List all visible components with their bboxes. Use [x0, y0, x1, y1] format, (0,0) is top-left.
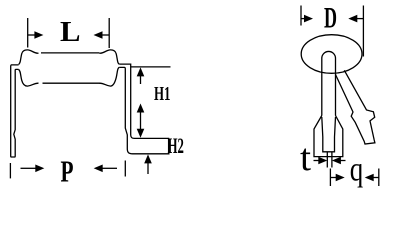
main lead (straight, crimped tip) [322, 51, 336, 115]
H1 lower double-headed arrow [137, 104, 145, 138]
main lead inner crimp [322, 117, 336, 152]
left lead (bent down, with crimp kink, widened crimped tip) [11, 65, 19, 157]
svg-text:L: L [60, 16, 81, 48]
dimension t tick right [331, 153, 333, 168]
H1 upper arrow (pointing up at ref line) [137, 67, 145, 84]
dimension L extension line right [108, 18, 110, 48]
dimension q tick right [378, 169, 380, 187]
dimension D extension line right [362, 6, 364, 57]
dimension D arrow right [348, 15, 363, 23]
svg-text:P: P [61, 153, 74, 188]
dimension L arrow left [28, 31, 43, 39]
dimension P arrow left (pointing right) [21, 165, 45, 173]
svg-text:t: t [300, 137, 311, 179]
H1 reference line [131, 66, 171, 68]
dimension L extension line left [27, 18, 29, 48]
dimension q tick left [329, 169, 331, 187]
dimension t tick left [326, 153, 328, 168]
angled lead (seen edge-on, crimp bulge then narrow tip) [336, 70, 375, 144]
dimension P tick right [124, 161, 126, 177]
main lead crimp flare [314, 116, 343, 157]
body right end cap [99, 50, 119, 86]
dimension D extension line left [300, 6, 302, 26]
dimension D arrow left [301, 15, 313, 23]
component body top line (long dash) [41, 52, 99, 54]
svg-text:D: D [324, 1, 337, 34]
dimension t arrow right (pointing left) [332, 157, 346, 165]
disc body (ellipse) [301, 35, 362, 74]
dimension q arrow right (pointing left) [365, 174, 379, 182]
right lead (bent down then foot to the right) [119, 64, 169, 154]
dimension q arrow left (pointing right) [331, 174, 345, 182]
dimension P tick left [9, 163, 11, 178]
component body bottom line (long dash) [43, 82, 101, 84]
dimension P arrow right (pointing left) [94, 165, 117, 173]
H2 arrow (pointing up at foot bottom) [144, 154, 152, 174]
svg-text:H2: H2 [168, 133, 184, 158]
body left end cap [19, 50, 39, 86]
dimension L arrow right [94, 31, 110, 39]
svg-text:H1: H1 [154, 83, 171, 105]
svg-text:q: q [350, 151, 364, 188]
dimension t arrow left (pointing right) [314, 157, 328, 165]
